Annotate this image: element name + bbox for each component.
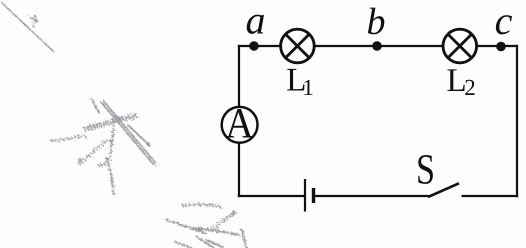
ammeter A: [222, 107, 258, 143]
battery long plate (+): [304, 179, 306, 212]
svg-text:S: S: [416, 146, 435, 193]
faint pencil character bottom-center: [167, 205, 246, 248]
switch S blade: [428, 183, 459, 197]
node c: [496, 42, 506, 52]
wire bottom segment middle (battery to switch): [314, 195, 430, 197]
svg-text:2: 2: [464, 75, 476, 100]
wire left vertical upper: [238, 45, 240, 107]
wire top segment left (a to L1): [238, 45, 282, 47]
wire left vertical lower: [238, 143, 240, 198]
wire right vertical: [516, 45, 518, 197]
faint pencil scribble group top-left: [2, 3, 54, 52]
svg-text:1: 1: [302, 75, 314, 100]
wire bottom segment left (to battery): [238, 195, 305, 197]
lamp L1: [281, 29, 315, 63]
svg-text:c: c: [495, 0, 513, 43]
node a: [249, 41, 259, 51]
svg-text:A: A: [225, 100, 254, 147]
lamp L2: [443, 29, 477, 63]
wire top segment right (L2 to corner): [477, 45, 518, 47]
faint pencil character middle-left: [52, 100, 156, 196]
battery short plate (-): [312, 188, 315, 203]
svg-text:b: b: [367, 1, 386, 43]
svg-text:a: a: [246, 0, 266, 43]
wire top segment middle (L1 to L2): [314, 45, 444, 47]
pencil accent specks: [34, 19, 235, 231]
wire bottom segment right (switch to corner): [462, 195, 519, 197]
node b: [372, 41, 382, 51]
